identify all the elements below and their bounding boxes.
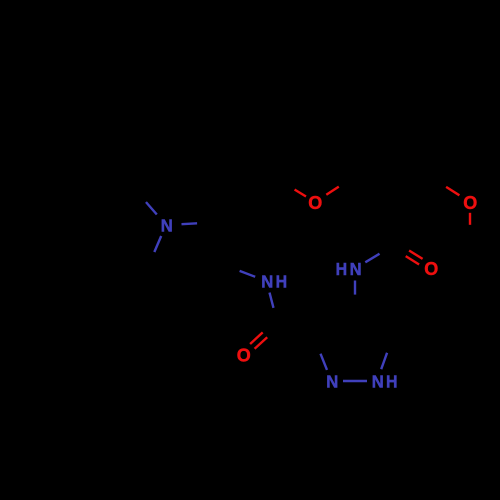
svg-text:O: O — [308, 192, 322, 213]
svg-text:O: O — [424, 258, 438, 279]
wire N1-C2 piperidine — [182, 223, 214, 225]
wire NH-C(=O) — [270, 293, 278, 324]
wire O-CH3 methoxy left — [283, 183, 306, 197]
svg-text:N: N — [261, 272, 273, 292]
label NH amide 1 — [261, 272, 287, 292]
wire C4-NH amide 2 — [354, 281, 356, 309]
label N piperidine — [161, 216, 173, 236]
benzyl ring bond — [45, 108, 67, 149]
wire CH2-phenyl — [114, 150, 135, 189]
benzyl ring bond — [114, 111, 139, 151]
aryl ring bond — [351, 108, 392, 132]
wire O-CH3 methoxy right — [469, 213, 471, 237]
C=O double bond amide 1 — [250, 321, 280, 349]
svg-text:N: N — [326, 372, 338, 392]
wire aryl-O methoxy left — [326, 179, 351, 195]
label O carbonyl 1 — [237, 345, 251, 366]
svg-text:H: H — [336, 259, 348, 279]
pyrazole N2-N1 — [343, 380, 367, 382]
svg-text:H: H — [276, 272, 288, 292]
svg-text:H: H — [386, 372, 398, 392]
aryl ring bond — [392, 179, 433, 203]
label NH pyrazole — [372, 372, 398, 392]
benzyl ring bond — [70, 68, 117, 70]
pyrazole C4-C5 bond — [355, 309, 393, 337]
label O methoxy right — [463, 192, 477, 213]
aryl ring bond — [351, 179, 392, 203]
benzyl ring bond — [67, 149, 114, 151]
aryl ring bond — [392, 108, 433, 132]
wire C5-C6 piperidine — [147, 268, 155, 310]
svg-text:N: N — [350, 259, 362, 279]
svg-text:O: O — [237, 345, 251, 366]
aryl ring bond — [432, 132, 434, 179]
pyrazole C4-C3 — [314, 309, 355, 338]
wire C(=O)-pyrazole C3 — [278, 323, 314, 337]
wire C3-C4 piperidine — [202, 265, 224, 307]
wire C4-C5 piperidine — [155, 307, 202, 310]
C=O double bond amide 2 — [392, 242, 422, 264]
aryl ring bond — [350, 132, 352, 179]
wire C(=O)-aryl — [392, 202, 394, 245]
svg-text:O: O — [463, 192, 477, 213]
pyrazole N1-C5 — [381, 336, 393, 369]
wire N1-C6 piperidine — [147, 236, 161, 268]
wire NH-C(=O) amide 2 — [365, 245, 394, 262]
benzyl ring bond — [45, 68, 70, 108]
svg-text:N: N — [372, 372, 384, 392]
pyrazole C3-N2 bond — [314, 338, 327, 370]
wire N1-CH2 benzyl — [135, 190, 157, 215]
benzyl ring bond — [117, 69, 139, 110]
label N2 pyrazole — [326, 372, 338, 392]
label HN amide 2 — [336, 259, 362, 279]
wire C3-NH amide — [224, 265, 255, 277]
wire aryl-O methoxy right — [433, 179, 460, 196]
svg-text:N: N — [161, 216, 173, 236]
label O methoxy left — [308, 192, 322, 213]
label O carbonyl 2 — [424, 258, 438, 279]
wire C2-C3 piperidine — [213, 223, 224, 266]
